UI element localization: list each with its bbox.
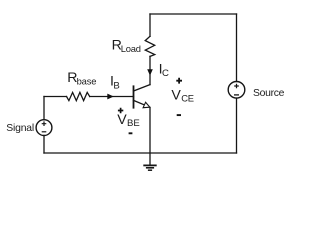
current arrow IB: [107, 94, 114, 100]
resistor RLoad: [145, 36, 155, 56]
svg-text:BE: BE: [127, 118, 140, 129]
wire resistor to collector: [149, 56, 151, 84]
label Rbase: [67, 70, 96, 86]
wire bottom (ground net): [44, 152, 237, 154]
wire right upper: [236, 14, 238, 82]
wire right lower: [236, 98, 238, 153]
source Source (supply): [228, 82, 245, 99]
svg-text:Signal: Signal: [6, 123, 34, 134]
svg-text:Source: Source: [253, 88, 285, 99]
svg-text:CE: CE: [181, 93, 194, 104]
label VCE: [171, 88, 193, 104]
source Signal: [36, 120, 52, 136]
wire base left: [44, 96, 67, 98]
wire left lower: [43, 136, 45, 154]
wire emitter vertical: [149, 107, 151, 153]
wire base right: [90, 96, 134, 98]
svg-text:B: B: [113, 81, 119, 92]
label RLoad: [112, 37, 141, 53]
wire top (collector node to source +): [150, 13, 237, 15]
label IC: [159, 62, 169, 80]
svg-text:V: V: [171, 88, 181, 104]
resistor Rbase: [67, 92, 90, 100]
svg-text:Load: Load: [121, 43, 141, 54]
svg-text:base: base: [77, 75, 97, 86]
wire left upper: [43, 97, 45, 120]
svg-text:V: V: [117, 112, 127, 128]
label VBE: [117, 112, 140, 129]
label VBE plus: [118, 108, 123, 113]
transistor Q1 (NPN): [134, 85, 151, 108]
wire collector vertical: [149, 14, 151, 36]
label VCE minus: [177, 114, 181, 116]
ground: [143, 153, 156, 170]
label IB: [110, 74, 120, 92]
label VBE minus: [129, 132, 133, 134]
label VCE plus: [176, 78, 182, 84]
svg-text:C: C: [162, 68, 169, 79]
current arrow IC: [147, 69, 153, 75]
